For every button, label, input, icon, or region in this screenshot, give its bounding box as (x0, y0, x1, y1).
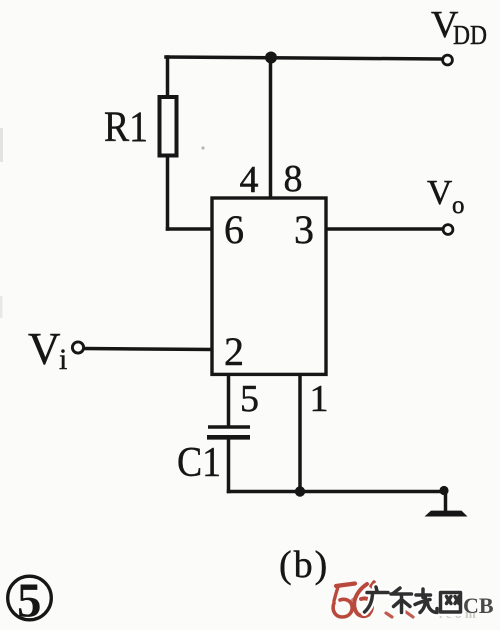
svg-text:i: i (59, 343, 67, 376)
svg-text:CB: CB (463, 593, 494, 618)
svg-text:V: V (28, 324, 61, 374)
svg-text:DD: DD (453, 20, 487, 50)
svg-text:5: 5 (240, 378, 259, 420)
svg-text:V: V (427, 173, 452, 212)
svg-text:C1: C1 (177, 440, 221, 486)
svg-text:4: 4 (240, 159, 259, 201)
svg-text:6: 6 (224, 207, 244, 252)
svg-text:8: 8 (284, 158, 303, 200)
svg-text:3: 3 (294, 207, 314, 252)
svg-text:o: o (452, 192, 465, 219)
svg-text:R1: R1 (104, 104, 148, 151)
svg-text:(b): (b) (279, 544, 329, 586)
svg-text:2: 2 (224, 329, 244, 374)
svg-text:5: 5 (17, 573, 42, 628)
svg-text:1: 1 (310, 378, 329, 420)
